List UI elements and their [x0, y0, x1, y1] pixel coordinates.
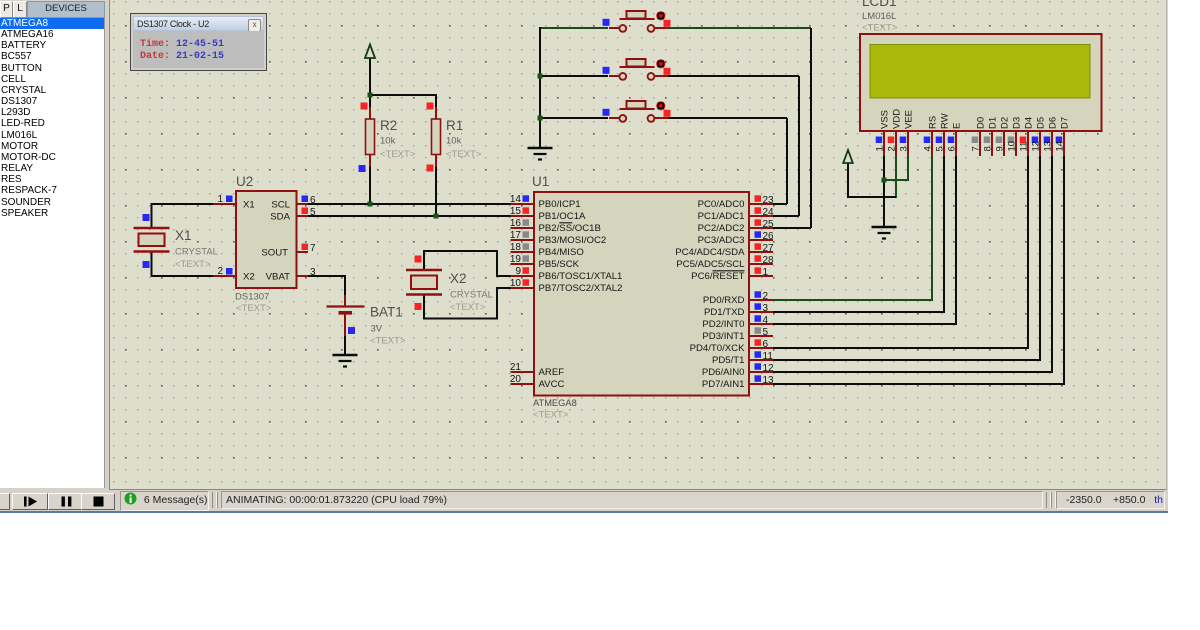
svg-text:PD4/T0/XCK: PD4/T0/XCK — [690, 343, 746, 354]
svg-text:9: 9 — [515, 266, 521, 277]
state square R1 bottom — [427, 165, 434, 172]
svg-text:PD6/AIN0: PD6/AIN0 — [702, 367, 745, 378]
state square button 2 left — [603, 67, 610, 74]
state square button 3 right — [664, 110, 671, 117]
U1 pin 28 PC5/ADC5/SCL — [749, 263, 773, 265]
svg-text:PC3/ADC3: PC3/ADC3 — [698, 235, 745, 246]
wire: SDA net row — [308, 215, 511, 217]
svg-text:E: E — [952, 123, 963, 129]
svg-text:CRYSTAL: CRYSTAL — [175, 247, 218, 258]
svg-text:PB7/TOSC2/XTAL2: PB7/TOSC2/XTAL2 — [539, 283, 623, 294]
svg-text:17: 17 — [510, 230, 522, 241]
wire: X1 crystal to U2 pin2 — [151, 252, 153, 278]
power VCC arrow (LCD) — [843, 150, 853, 163]
U2 pin 5 SDA — [297, 215, 309, 217]
svg-text:X2: X2 — [450, 271, 467, 286]
svg-text:1: 1 — [875, 146, 886, 151]
svg-text:5: 5 — [935, 146, 946, 151]
wire: battery minus to ground — [344, 335, 346, 355]
svg-text:<TEXT>: <TEXT> — [380, 149, 416, 160]
svg-text:PC2/ADC2: PC2/ADC2 — [698, 223, 745, 234]
IC U1 ATMEGA8 — [534, 192, 749, 396]
svg-text:5: 5 — [310, 207, 316, 218]
svg-text:PB1/OC1A: PB1/OC1A — [539, 211, 587, 222]
svg-text:7: 7 — [310, 243, 316, 254]
wire: button row 3 net — [540, 117, 608, 119]
LCD pin 5 RW — [943, 131, 945, 156]
U1 pin 23 PC0/ADC0 — [749, 203, 773, 205]
device list — [0, 18, 105, 488]
wire: R1 bottom to SDA — [435, 167, 437, 217]
L button — [13, 1, 27, 18]
svg-text:2: 2 — [217, 266, 223, 277]
svg-text:D3: D3 — [1012, 117, 1023, 129]
svg-text:11: 11 — [1019, 142, 1030, 152]
ground (battery) — [333, 354, 358, 356]
button 3 (push button) — [609, 117, 619, 119]
ground (buttons) — [528, 147, 553, 149]
svg-text:D1: D1 — [988, 117, 999, 129]
wire: LCD VDD to power — [895, 156, 897, 198]
wire: LCD D6 to PD6 pin12 — [1051, 156, 1053, 372]
wire: LCD D5 to PD5 pin11 — [1039, 156, 1041, 360]
U1 pin 3 PD1/TXD — [749, 311, 773, 313]
wire: X2 top to XTAL1 pin9 — [423, 250, 425, 270]
svg-text:26: 26 — [763, 231, 775, 242]
svg-text:2: 2 — [763, 291, 769, 302]
junction R2/SCL — [368, 202, 373, 207]
svg-text:15: 15 — [510, 206, 522, 217]
svg-text:PD1/TXD: PD1/TXD — [704, 307, 745, 318]
svg-text:14: 14 — [510, 194, 522, 205]
U2 pin 2 X2 — [213, 275, 236, 277]
svg-text:13: 13 — [763, 375, 775, 386]
svg-text:PB4/MISO: PB4/MISO — [539, 247, 584, 258]
U1 pin 4 PD2/INT0 — [749, 323, 773, 325]
state square X1 top — [143, 214, 150, 221]
LCD pin 2 VDD — [895, 131, 897, 156]
svg-text:PC4/ADC4/SDA: PC4/ADC4/SDA — [675, 247, 745, 258]
DS1307 clock popup window — [130, 13, 267, 71]
svg-text:PD3/INT1: PD3/INT1 — [702, 331, 744, 342]
svg-text:AVCC: AVCC — [539, 379, 565, 390]
U1 pin 20 AVCC — [511, 383, 535, 385]
state square R2 top — [361, 103, 368, 110]
U1 pin 13 PD7/AIN1 — [749, 383, 773, 385]
IC U2 DS1307 — [236, 191, 297, 288]
wire: LCD D7 to PD7 pin13 — [1063, 156, 1065, 384]
svg-text:RS: RS — [928, 116, 939, 129]
U2 pin 6 SCL — [297, 203, 309, 205]
battery BAT1 3V — [344, 295, 346, 307]
coords panel — [1046, 492, 1051, 508]
DEVICES header — [27, 1, 105, 18]
button 2 (push button) — [609, 75, 619, 77]
U1 pin 25 PC2/ADC2 — [749, 227, 773, 229]
state square R1 top — [427, 103, 434, 110]
U2 pin 1 X1 — [213, 203, 236, 205]
U1 pin 19 PB5/SCK — [511, 263, 535, 265]
power VCC arrow (R2/R1) — [365, 45, 375, 59]
LCD pin 11 D4 — [1027, 131, 1029, 156]
state square button 1 left — [603, 19, 610, 26]
wire: LCD D4 to PD4 pin6 — [1027, 156, 1029, 348]
svg-text:X1: X1 — [243, 200, 255, 211]
state square R2 bottom — [359, 165, 366, 172]
svg-text:U1: U1 — [532, 174, 549, 189]
U1 pin 15 PB1/OC1A — [511, 215, 535, 217]
wire: R2 bottom to SCL — [369, 167, 371, 205]
separator marks — [212, 492, 217, 508]
svg-text:AREF: AREF — [539, 367, 565, 378]
LCD pin 4 RS — [931, 131, 933, 156]
wire: X2 bottom to XTAL2 pin10 — [423, 295, 425, 320]
svg-text:SDA: SDA — [270, 212, 290, 223]
left device selector panel — [0, 1, 104, 17]
U1 pin 16 PB2/SS/OC1B — [511, 227, 535, 229]
wire: X1 crystal to U2 pin1 — [152, 203, 214, 205]
U1 pin 9 PB6/TOSC1/XTAL1 — [511, 275, 535, 277]
svg-text:10k: 10k — [380, 136, 396, 147]
svg-text:24: 24 — [763, 207, 775, 218]
svg-text:<TEXT>: <TEXT> — [175, 259, 211, 270]
window bottom edge — [0, 511, 1168, 513]
svg-text:10: 10 — [1007, 141, 1018, 152]
svg-text:LCD1: LCD1 — [862, 0, 897, 9]
wire: LCD RS to PD0 pin2 — [931, 156, 933, 300]
svg-text:PC0/ADC0: PC0/ADC0 — [698, 199, 745, 210]
resistor R1 10k — [435, 107, 437, 119]
wire: LCD E to PD2 pin4 — [955, 156, 957, 324]
junction VSS/VEE — [882, 178, 887, 183]
U1 pin 5 PD3/INT1 — [749, 335, 773, 337]
wire: button row 2 net — [540, 75, 608, 77]
pause button — [48, 493, 82, 510]
svg-text:PC5/ADC5/SCL: PC5/ADC5/SCL — [676, 259, 745, 270]
LCD pin 9 D2 — [1003, 131, 1005, 156]
svg-text:PB5/SCK: PB5/SCK — [539, 259, 580, 270]
U1 pin 24 PC1/ADC1 — [749, 215, 773, 217]
svg-text:27: 27 — [763, 243, 775, 254]
svg-text:<TEXT>: <TEXT> — [450, 302, 486, 313]
svg-text:PD0/RXD: PD0/RXD — [703, 295, 745, 306]
button 1 (push button) — [609, 27, 619, 29]
wire: U2 VBAT to battery — [308, 275, 346, 277]
svg-text:<TEXT>: <TEXT> — [236, 303, 272, 314]
wire: LCD RW to PD1 pin3 — [943, 156, 945, 312]
U2 pin 7 SOUT — [297, 251, 309, 253]
svg-text:D2: D2 — [1000, 117, 1011, 129]
U1 pin 17 PB3/MOSI/OC2 — [511, 239, 535, 241]
state square X2 top — [415, 256, 422, 263]
svg-text:PD7/AIN1: PD7/AIN1 — [702, 379, 745, 390]
svg-text:PB3/MOSI/OC2: PB3/MOSI/OC2 — [539, 235, 607, 246]
junction VCC/R2/R1 — [368, 93, 373, 98]
wire: button3 to PC0 pin23 — [786, 118, 788, 204]
U1 pin 21 AREF — [511, 371, 535, 373]
wire: button left common vertical to ground — [539, 27, 541, 148]
svg-text:18: 18 — [510, 242, 522, 253]
wire: LCD VSS to ground — [883, 156, 885, 227]
step button — [12, 493, 48, 510]
svg-text:4: 4 — [763, 315, 769, 326]
svg-text:1: 1 — [763, 267, 769, 278]
svg-text:3: 3 — [763, 303, 769, 314]
LCD pin 7 D0 — [979, 131, 981, 156]
svg-text:4: 4 — [923, 146, 934, 151]
state square button 1 right — [664, 20, 671, 27]
LCD pin 12 D5 — [1039, 131, 1041, 156]
svg-text:VEE: VEE — [904, 110, 915, 129]
svg-text:16: 16 — [510, 218, 522, 229]
LCD pin 14 D7 — [1063, 131, 1065, 156]
svg-text:SOUT: SOUT — [261, 248, 288, 259]
junction btn row3 — [538, 116, 543, 121]
wire: power arrow to VDD — [847, 163, 849, 198]
wire: button1 to PC2 pin25 — [810, 28, 812, 228]
LCD LCD1 LM016L body — [860, 34, 1102, 131]
svg-text:PC6/RESET: PC6/RESET — [691, 271, 744, 282]
LCD pin 8 D1 — [991, 131, 993, 156]
state square X1 bottom — [143, 261, 150, 268]
svg-text:D0: D0 — [976, 117, 987, 129]
U1 pin 2 PD0/RXD — [749, 299, 773, 301]
svg-text:RW: RW — [940, 113, 951, 129]
crystal X1 — [134, 227, 170, 229]
junction R1/SDA — [434, 214, 439, 219]
state square X2 bottom — [415, 303, 422, 310]
wire: LCD VEE to ground junction — [907, 156, 909, 181]
svg-text:3: 3 — [310, 267, 316, 278]
schematic canvas — [109, 0, 1167, 490]
svg-text:ATMEGA8: ATMEGA8 — [533, 398, 577, 408]
U1 pin 10 PB7/TOSC2/XTAL2 — [511, 287, 535, 289]
svg-text:21: 21 — [510, 362, 522, 373]
svg-text:<TEXT>: <TEXT> — [446, 149, 482, 160]
svg-text:25: 25 — [763, 219, 775, 230]
P button — [0, 1, 13, 18]
svg-text:12: 12 — [763, 363, 775, 374]
svg-text:X2: X2 — [243, 272, 255, 283]
wire: VCC rail to R2/R1 tops — [369, 58, 371, 96]
svg-text:<TEXT>: <TEXT> — [370, 336, 406, 347]
state square BAT1 — [348, 327, 355, 334]
svg-text:PB0/ICP1: PB0/ICP1 — [539, 199, 581, 210]
svg-text:2: 2 — [887, 146, 898, 151]
svg-text:12: 12 — [1031, 141, 1042, 152]
U2 pin 3 VBAT — [297, 275, 309, 277]
message panel — [120, 491, 209, 511]
wire: button row 1 net — [540, 27, 608, 29]
svg-text:7: 7 — [971, 146, 982, 151]
junction btn row2 — [538, 74, 543, 79]
U1 pin 12 PD6/AIN0 — [749, 371, 773, 373]
svg-text:PB2/SS/OC1B: PB2/SS/OC1B — [539, 223, 601, 234]
svg-text:3V: 3V — [371, 324, 383, 335]
svg-text:X1: X1 — [175, 228, 192, 243]
svg-text:VSS: VSS — [880, 110, 891, 129]
U1 pin 14 PB0/ICP1 — [511, 203, 535, 205]
svg-text:8: 8 — [983, 146, 994, 151]
animating panel — [221, 491, 1043, 509]
svg-text:PB6/TOSC1/XTAL1: PB6/TOSC1/XTAL1 — [539, 271, 623, 282]
wire: SCL net row — [308, 203, 511, 205]
svg-text:U2: U2 — [236, 174, 253, 189]
svg-text:6: 6 — [310, 195, 316, 206]
U1 pin 18 PB4/MISO — [511, 251, 535, 253]
svg-text:BAT1: BAT1 — [370, 305, 403, 320]
svg-text:VBAT: VBAT — [266, 272, 290, 283]
svg-text:6: 6 — [763, 339, 769, 350]
svg-text:D7: D7 — [1060, 117, 1071, 129]
svg-text:19: 19 — [510, 254, 522, 265]
crystal X2 — [406, 269, 442, 271]
svg-text:6: 6 — [947, 146, 958, 151]
svg-text:9: 9 — [995, 146, 1006, 151]
svg-text:DS1307: DS1307 — [235, 292, 269, 303]
LCD pin 6 E — [955, 131, 957, 156]
wire: button2 to PC1 pin24 — [798, 76, 800, 216]
LCD pin 3 VEE — [907, 131, 909, 156]
status bar — [0, 490, 1168, 511]
svg-text:23: 23 — [763, 195, 775, 206]
svg-text:20: 20 — [510, 374, 522, 385]
LCD pin 13 D6 — [1051, 131, 1053, 156]
svg-text:11: 11 — [763, 351, 774, 362]
svg-text:13: 13 — [1043, 141, 1054, 152]
svg-text:10: 10 — [510, 278, 522, 289]
svg-text:10k: 10k — [446, 136, 462, 147]
resistor R2 10k — [369, 107, 371, 119]
LCD pin 10 D3 — [1015, 131, 1017, 156]
svg-text:CRYSTAL: CRYSTAL — [450, 290, 493, 301]
svg-text:<TEXT>: <TEXT> — [533, 410, 569, 421]
state square button 2 right — [664, 68, 671, 75]
svg-text:VDD: VDD — [892, 109, 903, 129]
ground (LCD) — [872, 226, 897, 228]
svg-text:28: 28 — [763, 255, 775, 266]
U1 pin 26 PC3/ADC3 — [749, 239, 773, 241]
svg-text:PD2/INT0: PD2/INT0 — [702, 319, 744, 330]
svg-text:PD5/T1: PD5/T1 — [712, 355, 745, 366]
svg-text:PC1/ADC1: PC1/ADC1 — [698, 211, 745, 222]
U1 pin 1 PC6/RESET — [749, 275, 773, 277]
svg-text:14: 14 — [1055, 141, 1066, 152]
svg-text:R2: R2 — [380, 118, 397, 133]
stop button — [81, 493, 115, 510]
svg-text:LM016L: LM016L — [862, 11, 896, 22]
LCD screen — [870, 45, 1090, 99]
U1 pin 27 PC4/ADC4/SDA — [749, 251, 773, 253]
state square button 3 left — [603, 109, 610, 116]
U1 pin 11 PD5/T1 — [749, 359, 773, 361]
svg-text:SCL: SCL — [271, 200, 290, 211]
svg-text:D4: D4 — [1024, 117, 1035, 129]
play button (clipped) — [0, 493, 10, 510]
LCD pin 1 VSS — [883, 131, 885, 156]
U1 pin 6 PD4/T0/XCK — [749, 347, 773, 349]
svg-text:<TEXT>: <TEXT> — [862, 23, 898, 34]
svg-text:3: 3 — [899, 146, 910, 151]
svg-text:1: 1 — [217, 194, 223, 205]
svg-text:R1: R1 — [446, 118, 463, 133]
svg-text:D6: D6 — [1048, 117, 1059, 129]
svg-text:D5: D5 — [1036, 117, 1047, 129]
svg-text:5: 5 — [763, 327, 769, 338]
